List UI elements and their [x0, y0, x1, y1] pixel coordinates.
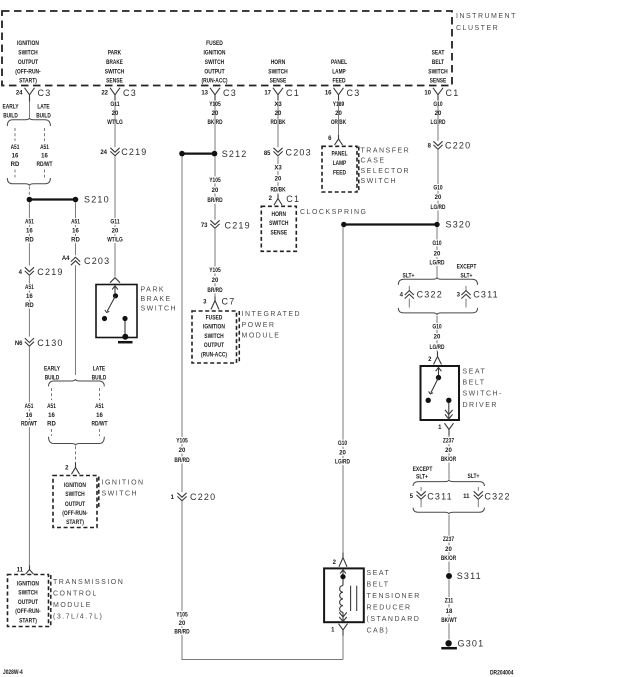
- svg-text:LATE: LATE: [37, 105, 49, 111]
- svg-text:C203: C203: [286, 148, 312, 158]
- wire Y105 20 BR/RD label 4: [172, 611, 193, 636]
- instrument cluster label: [456, 13, 517, 32]
- connector C3 pin 24 (instrument cluster): [16, 88, 52, 102]
- svg-text:C1: C1: [286, 194, 300, 204]
- brace splitting early/late build wires (top): [7, 118, 50, 126]
- tensioner terminal arrow: [340, 570, 346, 577]
- svg-text:CASE: CASE: [361, 158, 386, 165]
- svg-text:SWITCH: SWITCH: [65, 492, 84, 498]
- svg-text:C203: C203: [84, 256, 110, 266]
- svg-text:G10: G10: [338, 441, 348, 447]
- wire C203 down to build brace: [75, 265, 77, 375]
- svg-text:C322: C322: [417, 290, 443, 300]
- splice S320: [341, 220, 471, 230]
- cluster label: panel lamp feed: [331, 60, 347, 85]
- tensioner core line 2: [356, 586, 358, 611]
- cluster label: horn switch sense: [268, 60, 287, 85]
- svg-text:Y105: Y105: [176, 439, 188, 445]
- svg-text:(3.7L/4.7L): (3.7L/4.7L): [53, 614, 103, 621]
- transfer case selector switch label: [361, 148, 411, 186]
- svg-text:PANEL: PANEL: [331, 152, 347, 158]
- connector C322 pin 4 (in-line up): [400, 290, 443, 300]
- svg-text:2: 2: [428, 357, 432, 363]
- brace splitting to C322/C311 (upper): [398, 277, 477, 285]
- tensioner reducer coil: [340, 586, 343, 613]
- wire brace to splice S311 Z237 20 BK/OR: [448, 515, 450, 573]
- cluster label: seat belt switch sense: [428, 51, 447, 85]
- svg-text:A51: A51: [25, 220, 34, 226]
- svg-text:EXCEPT: EXCEPT: [413, 467, 433, 473]
- svg-text:4: 4: [400, 292, 404, 298]
- connector C3 pin 13 (instrument cluster): [201, 88, 237, 102]
- splice S210: [27, 195, 110, 205]
- svg-text:16: 16: [26, 294, 33, 300]
- wire Z237 20 BK/OR label 2: [438, 536, 459, 563]
- ignition switch label bracket: [98, 477, 100, 508]
- svg-text:REDUCER: REDUCER: [367, 605, 412, 612]
- svg-text:(OFF-RUN-: (OFF-RUN-: [15, 609, 40, 615]
- svg-text:FEED: FEED: [332, 79, 346, 85]
- park brake switch contact dot (top): [113, 293, 118, 298]
- svg-text:LAMP: LAMP: [333, 161, 346, 167]
- svg-text:3: 3: [203, 300, 207, 306]
- svg-text:SWITCH: SWITCH: [205, 60, 224, 66]
- panel lamp feed box internal label: [331, 152, 347, 177]
- svg-text:SWITCH: SWITCH: [141, 306, 178, 313]
- svg-text:20: 20: [275, 177, 282, 183]
- switch-driver contact dot (top): [436, 375, 441, 380]
- splice S212: [179, 149, 247, 159]
- wire early build branch (dashed): [14, 128, 16, 141]
- svg-text:J028W-4: J028W-4: [3, 670, 23, 676]
- svg-text:8: 8: [428, 144, 432, 150]
- svg-text:16: 16: [72, 229, 79, 235]
- wire C130 down to TCM A51 16 RD/WT: [28, 347, 30, 566]
- switch-driver blade (moving contact): [429, 378, 439, 394]
- svg-text:SLT+: SLT+: [461, 274, 473, 280]
- svg-text:Z11: Z11: [445, 599, 454, 605]
- wire C3 pin 13 to splice S212 Y105 20 BK/RD: [214, 102, 216, 151]
- connector C219 pin 24 (in-line): [100, 147, 147, 157]
- wire S212 down to C220 Y105 20 BR/RD: [181, 156, 183, 492]
- cluster label: fused ignition switch output (run-acc): [202, 41, 228, 85]
- svg-text:EXCEPT: EXCEPT: [457, 265, 477, 271]
- connector C220 pin 8 (in-line): [428, 141, 472, 151]
- svg-text:LG/RD: LG/RD: [430, 260, 446, 266]
- wire Z237 20 BK/OR label: [438, 437, 459, 463]
- wire tensioner pin1 down to corner: [342, 636, 344, 660]
- svg-text:C1: C1: [286, 88, 300, 98]
- svg-text:BELT: BELT: [367, 582, 390, 589]
- svg-text:S210: S210: [84, 195, 110, 205]
- pin 2 into seat belt switch-driver: [428, 352, 441, 365]
- wire C219 to C130 A51 16 RD: [28, 276, 30, 337]
- wire S210 down-right A51 16 RD: [75, 202, 77, 255]
- svg-text:SWITCH: SWITCH: [361, 178, 398, 185]
- svg-text:BELT: BELT: [432, 60, 445, 66]
- wire late branch (dashed, lower): [99, 388, 101, 400]
- svg-text:73: 73: [201, 223, 208, 229]
- svg-text:C3: C3: [223, 88, 237, 98]
- svg-text:20: 20: [434, 335, 441, 341]
- switch-driver terminal arrow: [436, 367, 442, 377]
- park brake switch ground: [118, 334, 133, 342]
- pin 1 out of tensioner reducer: [331, 624, 347, 636]
- svg-text:CLOCKSPRING: CLOCKSPRING: [300, 209, 367, 216]
- svg-text:START): START): [19, 618, 37, 624]
- switch-driver contact dot (lower left): [426, 398, 431, 403]
- svg-text:BR/RD: BR/RD: [174, 458, 190, 464]
- svg-text:A51: A51: [71, 220, 80, 226]
- svg-text:(OFF-RUN-: (OFF-RUN-: [62, 511, 87, 517]
- svg-text:C1: C1: [446, 88, 460, 98]
- svg-text:OUTPUT: OUTPUT: [18, 600, 38, 606]
- svg-text:20: 20: [112, 229, 119, 235]
- svg-text:SWITCH: SWITCH: [204, 334, 223, 340]
- svg-text:20: 20: [339, 451, 346, 457]
- brace merging from C311/C322 (lower): [413, 508, 484, 515]
- svg-text:13: 13: [201, 91, 208, 97]
- svg-text:85: 85: [264, 151, 271, 157]
- park brake switch contact dot (lower left): [102, 316, 107, 321]
- svg-text:16: 16: [26, 413, 33, 419]
- svg-text:SENSE: SENSE: [270, 79, 287, 85]
- wire Y105 20 BK/RD label: [205, 101, 226, 127]
- svg-text:(RUN-ACC): (RUN-ACC): [201, 352, 227, 358]
- wire A51 16 RD/WT label 3: [19, 402, 40, 427]
- seat belt tensioner reducer (box): [324, 568, 364, 622]
- connector C3 pin 22 (instrument cluster): [101, 88, 137, 102]
- svg-text:DRIVER: DRIVER: [463, 402, 498, 409]
- svg-text:6: 6: [328, 136, 332, 142]
- seat belt switch-driver label: [463, 369, 503, 409]
- svg-text:SLT+: SLT+: [416, 474, 428, 480]
- svg-text:(STANDARD: (STANDARD: [367, 616, 421, 623]
- wire late build branch (dashed): [44, 128, 46, 141]
- wire S311 to ground G301 Z11 18 BK/WT: [448, 579, 450, 639]
- svg-text:S212: S212: [222, 149, 248, 159]
- svg-text:C3: C3: [38, 88, 52, 98]
- horn switch sense box internal label: [269, 212, 288, 237]
- svg-text:OUTPUT: OUTPUT: [204, 70, 224, 76]
- connector C1 pin 17 (instrument cluster): [264, 88, 300, 102]
- svg-text:LG/RD: LG/RD: [335, 460, 351, 466]
- svg-text:3: 3: [457, 292, 461, 298]
- wire C3 pin 22 to C219 G11 20 WT/LG: [114, 102, 116, 148]
- svg-text:24: 24: [100, 150, 107, 156]
- svg-text:FUSED: FUSED: [206, 316, 223, 322]
- svg-text:IGNITION: IGNITION: [102, 479, 145, 486]
- svg-text:START): START): [66, 520, 84, 526]
- wire G10 20 LG/RD label 2: [428, 184, 449, 211]
- park brake switch terminal arrow: [112, 286, 118, 296]
- svg-text:RD/BK: RD/BK: [271, 188, 287, 194]
- wire brace to ignition switch (dashed): [75, 446, 77, 462]
- wire Y189 20 OR/BK label: [328, 101, 349, 127]
- svg-text:20: 20: [434, 252, 441, 258]
- wire from C3 pin 24 to build brace: [29, 102, 31, 118]
- ignition switch box internal label: ignition switch output (off-run-start): [62, 483, 87, 526]
- svg-text:INTEGRATED: INTEGRATED: [242, 311, 302, 318]
- svg-text:RD: RD: [25, 238, 34, 244]
- slt labels (upper connector pair): [403, 265, 477, 280]
- seat belt switch-driver (box): [421, 366, 460, 420]
- svg-text:24: 24: [16, 91, 23, 97]
- svg-text:20: 20: [212, 188, 219, 194]
- transmission control module (dashed box): [8, 575, 49, 627]
- integrated power module label: [242, 311, 302, 339]
- svg-text:EARLY: EARLY: [2, 105, 18, 111]
- integrated power module (dashed box): [192, 311, 237, 363]
- switch-driver exit arrow: [445, 403, 453, 419]
- wire C3 pin 16 to transfer case switch Y189 20 OR/BK: [338, 102, 340, 136]
- park brake switch label: [141, 287, 178, 313]
- seat belt tensioner reducer label: [367, 570, 421, 635]
- wire C203 to clockspring X3 20 RD/BK: [277, 156, 279, 194]
- connector C3 pin 16 (instrument cluster): [325, 88, 361, 102]
- svg-text:FUSED: FUSED: [206, 41, 223, 47]
- svg-text:SLT+: SLT+: [403, 274, 415, 280]
- svg-text:SENSE: SENSE: [430, 79, 447, 85]
- svg-text:TENSIONER: TENSIONER: [367, 593, 421, 600]
- svg-text:2: 2: [269, 196, 273, 202]
- svg-text:TRANSMISSION: TRANSMISSION: [53, 579, 124, 586]
- svg-text:SWITCH: SWITCH: [105, 70, 124, 76]
- svg-text:BUILD: BUILD: [36, 114, 51, 120]
- wire X3 20 RD/BK label: [268, 101, 289, 127]
- early build / late build labels (top): [2, 105, 51, 120]
- clockspring horn switch sense (dashed box): [261, 206, 296, 251]
- svg-text:SLT+: SLT+: [468, 474, 480, 480]
- svg-text:PARK: PARK: [141, 287, 166, 294]
- svg-text:CLUSTER: CLUSTER: [456, 25, 499, 32]
- svg-text:RD: RD: [47, 422, 56, 428]
- svg-text:18: 18: [446, 609, 453, 615]
- svg-text:16: 16: [41, 154, 48, 160]
- splice S311: [446, 571, 482, 581]
- wire C322 branch (lower): [477, 487, 479, 491]
- svg-text:OUTPUT: OUTPUT: [204, 343, 224, 349]
- svg-text:Z237: Z237: [443, 537, 455, 543]
- svg-text:RD/WT: RD/WT: [21, 422, 37, 428]
- svg-text:SENSE: SENSE: [106, 79, 123, 85]
- svg-text:BELT: BELT: [463, 380, 486, 387]
- connector C322 pin 11 (in-line): [463, 491, 511, 501]
- brace merging early/late build wires (top): [7, 178, 50, 186]
- tensioner core line 1: [350, 586, 352, 611]
- svg-text:G10: G10: [433, 186, 443, 192]
- tensioner exit arrow: [339, 612, 347, 621]
- svg-text:C130: C130: [37, 338, 63, 348]
- switch-driver contact dot (right): [446, 398, 451, 403]
- transfer case label bracket: [358, 147, 360, 193]
- brace splitting early/late build wires (lower): [49, 379, 105, 386]
- tensioner contact dot: [340, 574, 345, 579]
- svg-text:OUTPUT: OUTPUT: [18, 60, 38, 66]
- wire late branch lower (dashed): [44, 170, 46, 178]
- svg-text:C3: C3: [123, 88, 137, 98]
- svg-text:BK/OR: BK/OR: [441, 457, 457, 463]
- svg-text:16: 16: [12, 154, 19, 160]
- wire Y105 20 BR/RD label 3: [172, 437, 193, 464]
- svg-text:(OFF-RUN-: (OFF-RUN-: [15, 70, 40, 76]
- wire C220 down to tensioner reducer Y105 20 BR/RD: [182, 501, 343, 659]
- svg-text:20: 20: [212, 278, 219, 284]
- svg-text:C219: C219: [225, 221, 251, 231]
- wire A51 16 RD label: [23, 218, 36, 244]
- svg-text:A51: A51: [11, 145, 20, 151]
- svg-text:FEED: FEED: [333, 171, 347, 177]
- svg-text:BR/RD: BR/RD: [174, 630, 190, 636]
- pin 1 out of switch-driver: [438, 423, 453, 435]
- svg-text:A4: A4: [62, 256, 70, 262]
- wire C219 to C7 Y105 20 BR/RD: [214, 229, 216, 297]
- transmission control module label: [53, 579, 124, 621]
- wire early branch (dashed, lower): [51, 388, 53, 400]
- svg-text:SWITCH: SWITCH: [18, 51, 37, 57]
- svg-text:SENSE: SENSE: [270, 231, 287, 237]
- pin 6 into transfer case selector switch: [328, 135, 342, 145]
- connector C219 pin 4 (in-line): [19, 267, 64, 277]
- svg-text:20: 20: [179, 621, 186, 627]
- svg-text:16: 16: [26, 229, 33, 235]
- svg-text:IGNITION: IGNITION: [203, 325, 225, 331]
- tensioner coil lead: [342, 579, 344, 586]
- IPM label bracket: [238, 311, 240, 363]
- svg-text:A51: A51: [47, 404, 56, 410]
- wire S210 down-left A51 16 RD: [28, 202, 30, 265]
- svg-text:RD/WT: RD/WT: [91, 422, 107, 428]
- TCM label bracket: [50, 575, 52, 627]
- svg-text:16: 16: [96, 413, 103, 419]
- svg-text:X3: X3: [274, 166, 282, 172]
- cluster label: park brake switch sense: [105, 51, 124, 85]
- svg-text:BR/RD: BR/RD: [207, 288, 223, 294]
- cluster label: ignition switch output (off-run-start): [15, 41, 40, 85]
- svg-text:LG/RD: LG/RD: [430, 345, 446, 351]
- pin 2 into seat belt tensioner reducer: [333, 553, 347, 567]
- svg-text:1: 1: [438, 425, 442, 431]
- ground G301: [441, 639, 484, 649]
- svg-text:Y105: Y105: [176, 612, 188, 618]
- svg-text:LAMP: LAMP: [332, 70, 345, 76]
- svg-text:BR/RD: BR/RD: [207, 198, 223, 204]
- svg-text:WT/LG: WT/LG: [107, 238, 123, 244]
- wire A51 16 RD label 2: [23, 284, 36, 310]
- svg-text:START): START): [19, 79, 37, 85]
- svg-text:G11: G11: [110, 220, 120, 226]
- svg-text:HORN: HORN: [272, 212, 287, 218]
- svg-text:RD: RD: [25, 303, 34, 309]
- connector C219 pin 73 (in-line): [201, 220, 251, 230]
- park brake switch contact dot (right): [122, 316, 127, 321]
- svg-text:INSTRUMENT: INSTRUMENT: [456, 13, 517, 20]
- wire C322 branch lower segment (upper pair): [408, 299, 410, 308]
- wire switch-driver to brace Z237 20 BK/OR: [448, 436, 450, 480]
- connector C1 pin 10 (instrument cluster): [424, 88, 459, 102]
- wire C322 branch (upper): [408, 286, 410, 291]
- connector C7 pin 3 into integrated power module: [203, 297, 235, 310]
- svg-text:4: 4: [19, 270, 23, 276]
- pin 2 into ignition switch: [65, 463, 79, 475]
- svg-text:A51: A51: [95, 404, 104, 410]
- svg-text:IGNITION: IGNITION: [17, 582, 39, 588]
- svg-text:A51: A51: [40, 145, 49, 151]
- svg-text:RD: RD: [71, 238, 80, 244]
- svg-text:C322: C322: [484, 491, 510, 501]
- svg-text:SELECTOR: SELECTOR: [361, 168, 411, 175]
- wire A51 16 RD label (early): [8, 144, 21, 169]
- wire C1 pin 17 to C203 X3 20 RD/BK: [277, 102, 279, 148]
- svg-text:10: 10: [424, 91, 431, 97]
- connector C311 pin 5 (in-line): [410, 491, 453, 501]
- wire C311 branch (upper): [465, 286, 467, 291]
- svg-text:Z237: Z237: [443, 439, 455, 445]
- svg-text:G10: G10: [432, 241, 442, 247]
- svg-text:BRAKE: BRAKE: [141, 296, 172, 303]
- svg-text:POWER: POWER: [242, 322, 276, 329]
- svg-text:C220: C220: [445, 141, 471, 151]
- svg-text:11: 11: [17, 568, 24, 574]
- svg-text:SWITCH: SWITCH: [18, 591, 37, 597]
- svg-text:20: 20: [445, 547, 452, 553]
- park brake switch blade (moving contact): [105, 296, 116, 313]
- wire G11 20 WT/LG label 2: [105, 218, 126, 244]
- wire C311 branch (lower): [420, 487, 422, 491]
- svg-text:20: 20: [435, 195, 442, 201]
- svg-text:HORN: HORN: [271, 60, 286, 66]
- instrument cluster (dashed box): [2, 11, 452, 86]
- svg-text:SEAT: SEAT: [367, 570, 391, 577]
- svg-text:5: 5: [410, 494, 414, 500]
- brace merging early/late build wires (lower): [49, 437, 105, 446]
- svg-text:OUTPUT: OUTPUT: [65, 502, 85, 508]
- svg-text:BUILD: BUILD: [3, 114, 18, 120]
- pin 11 into transmission control module: [17, 566, 34, 575]
- wire C1 pin 10 to C220 G10 20 LG/RD: [437, 102, 439, 141]
- connector C203 pin 85 (in-line): [264, 148, 312, 158]
- wire G10 20 LG/RD label (tensioner): [332, 440, 353, 466]
- wire brace to splice S210 (dashed): [28, 187, 30, 197]
- connector into park brake switch: [110, 278, 120, 283]
- wire A51 16 RD label (early lower): [45, 402, 58, 427]
- svg-text:22: 22: [101, 91, 108, 97]
- svg-text:IGNITION: IGNITION: [64, 483, 86, 489]
- TCM box internal label: ignition switch output (off-run-start): [15, 582, 40, 625]
- wire A51 16 RD/WT label (late lower): [89, 402, 110, 427]
- connector C220 pin 1 (in-line): [171, 492, 217, 502]
- svg-text:Y105: Y105: [209, 178, 221, 184]
- wire C311 branch lower segment (lower pair): [420, 500, 422, 507]
- svg-text:SEAT: SEAT: [463, 369, 487, 376]
- connector C203 pin A4 (in-line): [62, 256, 111, 266]
- connector C311 pin 3 (in-line up): [457, 290, 499, 300]
- svg-text:C219: C219: [37, 267, 63, 277]
- svg-text:C311: C311: [427, 491, 453, 501]
- svg-text:1: 1: [171, 495, 175, 501]
- svg-text:N6: N6: [15, 341, 23, 347]
- svg-text:SEAT: SEAT: [432, 51, 445, 57]
- svg-text:C311: C311: [473, 290, 499, 300]
- svg-text:PANEL: PANEL: [331, 60, 347, 66]
- svg-text:BK/WT: BK/WT: [441, 618, 457, 624]
- wire Y105 20 BR/RD label 2: [205, 266, 226, 294]
- wire A51 16 RD label (right): [69, 218, 82, 244]
- svg-text:CAB): CAB): [367, 628, 390, 635]
- wire G10 20 LG/RD label 3: [427, 239, 448, 266]
- svg-text:Y105: Y105: [209, 268, 221, 274]
- svg-text:16: 16: [325, 91, 332, 97]
